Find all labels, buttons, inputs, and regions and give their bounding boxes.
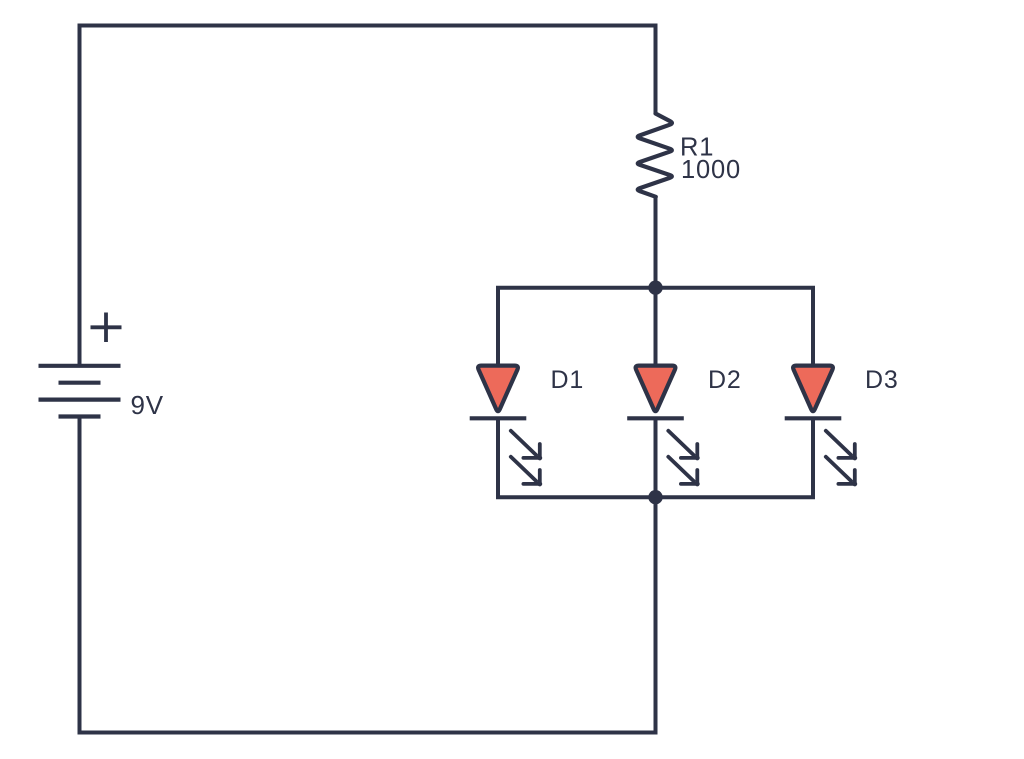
battery plus sign bbox=[91, 313, 122, 343]
battery V1 bbox=[39, 366, 121, 417]
resistor R1 bbox=[638, 114, 672, 197]
battery plate long bbox=[39, 398, 121, 402]
svg-text:D2: D2 bbox=[708, 366, 742, 394]
svg-text:D3: D3 bbox=[865, 366, 899, 394]
LED D3 bbox=[785, 366, 856, 485]
battery plate long top bbox=[39, 364, 121, 368]
svg-text:9V: 9V bbox=[131, 390, 164, 420]
node B junction dot bbox=[648, 490, 662, 504]
node A junction dot bbox=[648, 281, 662, 295]
wire branch D2 cathode bbox=[654, 418, 658, 497]
wire top rail of LED bank with D1 and D3 anode branches bbox=[498, 288, 813, 366]
wire resistor to node A bbox=[654, 197, 658, 288]
svg-text:1000: 1000 bbox=[681, 156, 741, 184]
wire from node B down, across the bottom and up to battery - bbox=[80, 417, 656, 733]
battery plate short bottom bbox=[59, 414, 101, 418]
battery plate short bbox=[59, 381, 101, 385]
LED D2 bbox=[627, 366, 698, 485]
wire branch D2 anode bbox=[654, 288, 658, 366]
wire bottom rail of LED bank with D1 and D3 cathode branches bbox=[498, 418, 813, 497]
svg-text:D1: D1 bbox=[551, 366, 585, 394]
wire from battery + up across the top and down to resistor bbox=[80, 26, 656, 366]
LED D1 bbox=[470, 366, 541, 485]
